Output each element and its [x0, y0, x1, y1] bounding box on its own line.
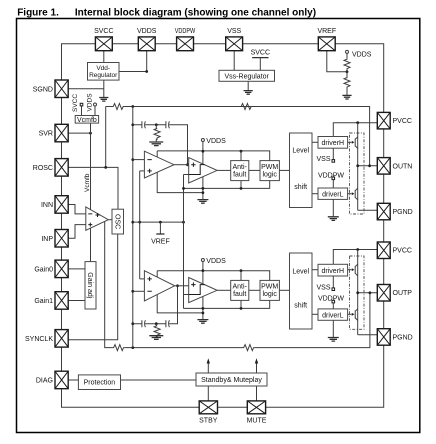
svg-text:Gain adj: Gain adj — [86, 272, 93, 299]
wire SYNCLK pin to OSC bottom — [68, 234, 118, 340]
block Anti-fault (ch1) — [231, 161, 249, 181]
svg-text:PVCC: PVCC — [393, 118, 412, 125]
op-amp U4 (integrator ch2) — [144, 271, 174, 301]
svg-text:STBY: STBY — [199, 417, 218, 424]
svg-text:fault: fault — [233, 291, 246, 298]
resistor (VREF divider upper) — [344, 58, 350, 71]
svg-text:driverH: driverH — [322, 268, 345, 275]
wire VDDS terminal down through comparator1 to ground — [202, 142, 204, 200]
wire Gain0 pin to Gain adj — [68, 268, 85, 270]
svg-text:ROSC: ROSC — [33, 165, 53, 172]
power terminal VDDPW (top, square) — [332, 177, 335, 180]
wire SVCC pin to Vdd-Regulator — [103, 51, 105, 63]
MOSFET Q1 (high side, top channel) — [348, 141, 352, 143]
junction Vdd-Regulator/VDDS — [145, 70, 148, 73]
wire INN pin to input amp inverting input — [68, 205, 86, 214]
block Vdd-Regulator — [88, 63, 120, 81]
wire comparator2 output to anti-fault2 — [217, 289, 231, 291]
ground (comparator1 section) — [197, 200, 208, 204]
svg-text:VDDS: VDDS — [87, 93, 94, 112]
junction VREF divider node — [346, 70, 349, 73]
wire Standby block to MUTE pin — [256, 386, 258, 401]
junction VREF stem — [159, 221, 162, 224]
ground (top cap node) — [149, 142, 163, 146]
resistor (top cap node to ground) — [154, 125, 160, 142]
svg-text:Vcmfb: Vcmfb — [84, 173, 91, 192]
junction bottom cap node — [155, 322, 158, 325]
svg-text:VDDS: VDDS — [206, 138, 226, 145]
MOSFET Q4 (low side, bottom channel) — [348, 313, 352, 315]
wire Vcmfb vertical (box to input amp, behind triangle) — [90, 123, 92, 229]
svg-text:SVCC: SVCC — [94, 28, 113, 35]
wire op-amp3 supply pass-through leg — [157, 271, 203, 313]
wire input amp output to OSC — [108, 219, 112, 221]
wire op-amp1 supply pass-through leg — [157, 151, 203, 193]
pin VSS (top) — [226, 37, 243, 51]
pin VDDPW (top) — [177, 37, 194, 51]
svg-text:shift: shift — [294, 302, 307, 309]
capacitor C3 (bottom left) — [142, 320, 146, 327]
wire PWM logic2 to level shift2 — [279, 289, 289, 291]
pin SVCC (top) — [95, 37, 112, 51]
block Vcmfb — [75, 116, 98, 124]
svg-text:Vdd-: Vdd- — [96, 65, 110, 72]
comparator U5 (ch2, with hysteresis) — [189, 278, 217, 303]
wire level shift2 to driverL2 — [312, 313, 318, 315]
net VREF rail — [133, 221, 184, 223]
pin INP (left) — [55, 230, 68, 248]
wire comparator2 minus input — [184, 294, 189, 296]
ground (bottom cap node) — [149, 336, 163, 340]
power terminal SVCC (square, above Vcmfb) — [81, 106, 83, 116]
pin MUTE (bottom) — [247, 401, 265, 414]
chip boundary (device border rectangle, pins straddle it) — [62, 44, 384, 408]
junction OUTP/feedback — [369, 291, 372, 294]
svg-text:SGND: SGND — [33, 86, 53, 93]
svg-text:driverL: driverL — [322, 192, 344, 199]
block driverL (ch2) — [318, 309, 348, 320]
power terminal VDDS (top channel) — [201, 139, 204, 142]
MOSFET Q3 (high side, bottom channel) — [348, 269, 352, 271]
junction feedback/inverting bus — [131, 105, 134, 108]
svg-text:INP: INP — [41, 236, 53, 243]
junction lower rail / bus — [182, 187, 185, 190]
net OUTN rail — [358, 165, 378, 167]
svg-text:OUTP: OUTP — [393, 290, 413, 297]
wire Standby block to STBY pin — [207, 386, 209, 401]
pin STBY (bottom) — [199, 401, 217, 414]
junction top cap node — [155, 123, 158, 126]
block Level shift (ch2) — [290, 253, 313, 329]
wire anti-fault2 to PWM logic2 — [249, 289, 260, 291]
junction bus/op-amp3 inverting input — [131, 290, 134, 293]
ground (Vdd-Regulator) — [99, 98, 108, 102]
junction OUTP/drain — [356, 291, 359, 294]
svg-text:VSS: VSS — [316, 284, 330, 291]
net PVCC rail (bottom channel) — [333, 250, 377, 265]
svg-text:PWM: PWM — [261, 284, 278, 291]
net VDDS rail (bottom channel) — [157, 271, 270, 281]
pin PGND (right ch2) — [377, 329, 390, 346]
junction VDDS rail / anti-fault supply — [240, 150, 243, 153]
svg-text:driverH: driverH — [322, 140, 345, 147]
pin PVCC (right ch1) — [377, 112, 390, 128]
svg-text:Figure 1.: Figure 1. — [17, 8, 59, 19]
svg-text:Anti-: Anti- — [232, 284, 247, 291]
pin ROSC (left) — [55, 159, 68, 177]
junction VDDS rail start — [202, 150, 205, 153]
svg-text:OUTN: OUTN — [393, 163, 413, 170]
net lower rail (top channel) — [184, 181, 270, 189]
junction VDDS rail2 start — [202, 269, 205, 272]
svg-text:Internal block diagram (showin: Internal block diagram (showing one chan… — [75, 8, 316, 19]
svg-text:VDDS: VDDS — [206, 258, 226, 265]
block driverL (ch1) — [318, 188, 348, 199]
wire feedback-line left leg down to ROSC net — [105, 107, 107, 168]
wire Gain1 pin to Gain adj — [68, 300, 85, 302]
net inverting bus (vertical x=132.8) — [132, 107, 134, 348]
block Vss-Regulator — [219, 70, 275, 81]
block driverH (ch2) — [318, 264, 348, 276]
resistor (VREF divider lower) — [344, 72, 350, 95]
junction ROSC/feedback leg — [104, 166, 107, 169]
junction bottom feedback/inverting bus — [131, 346, 134, 349]
wire driverL to ground (top) — [332, 199, 334, 216]
wire SGND pin to regulator ground — [68, 88, 104, 90]
svg-text:MUTE: MUTE — [247, 417, 267, 424]
wire op-amp1 output to comparator1 — [174, 164, 189, 166]
svg-text:Regulator: Regulator — [89, 72, 118, 79]
control arrow (standby to channel 2) — [256, 362, 258, 374]
block Anti-fault (ch2) — [231, 280, 249, 300]
power terminal VSS (bottom, square) — [332, 288, 335, 291]
wire VDDPW terminal to driverL (top) — [332, 180, 334, 188]
svg-text:VDDS: VDDS — [137, 28, 157, 35]
svg-text:VSS: VSS — [227, 28, 241, 35]
svg-text:SYNCLK: SYNCLK — [25, 336, 53, 343]
junction OUTN/feedback — [368, 164, 371, 167]
svg-text:VREF: VREF — [317, 28, 336, 35]
ground (comparator2 section) — [197, 320, 208, 324]
pin SGND (left) — [55, 80, 68, 98]
wire bottom integrator cap line — [133, 286, 178, 324]
block driverH (ch1) — [318, 137, 348, 149]
power terminal VDDS (circle) above divider — [346, 50, 349, 53]
wire level shift2 to driverH2 — [312, 269, 318, 271]
reference terminal VREF (inverted T) — [159, 222, 161, 234]
junction lower rail / anti-fault — [240, 187, 243, 190]
svg-text:SVCC: SVCC — [251, 50, 270, 57]
junction op-amp3 supply return — [202, 312, 205, 315]
svg-text:VDDPW: VDDPW — [175, 28, 196, 35]
svg-text:logic: logic — [262, 171, 277, 178]
ground (driverL bottom channel) — [328, 338, 339, 342]
wire common-mode leg (input amp down to bottom feedback) — [105, 221, 113, 348]
wire ROSC pin to OSC top — [68, 167, 118, 209]
block Standby and Muteplay — [196, 373, 267, 386]
wire VDDS terminal down through comparator2 to ground — [202, 262, 204, 320]
op-amp U1 (input error amp Vcmfb) — [86, 207, 109, 230]
wire anti-fault supply stub (behind box) — [240, 151, 242, 189]
comparator U3 (ch1, with hysteresis) — [189, 158, 217, 183]
wire op-amp1 inverting input — [133, 159, 145, 161]
wire comparator1 output to anti-fault — [217, 169, 231, 171]
capacitor C1 (top left) — [142, 121, 146, 128]
wire VDDPW terminal to driverL2 — [332, 303, 334, 309]
junction SVR/Vcmfb — [89, 132, 92, 135]
power terminal VDDS (circle, above Vcmfb) — [94, 106, 96, 116]
capacitor C2 (top right) — [166, 121, 170, 128]
junction cap leg / op-amp3 output — [176, 284, 179, 287]
block OSC — [112, 209, 124, 234]
junction noninv bus/VREF rail — [138, 221, 141, 224]
pin PGND (right ch1) — [377, 203, 390, 220]
svg-text:VDDPW: VDDPW — [318, 172, 344, 179]
ground (VREF divider) — [342, 95, 351, 99]
svg-text:Level: Level — [292, 268, 309, 275]
wire output stage drain line (bottom) — [357, 250, 359, 335]
junction bus/op-amp1 inverting input — [131, 158, 134, 161]
resistor (feedback R upper-right) — [240, 104, 252, 110]
net PGND rail (top channel) — [358, 209, 378, 211]
wire comparator1 minus input — [184, 174, 189, 176]
svg-text:Protection: Protection — [84, 380, 116, 387]
junction lower rail2 / anti-fault2 — [240, 307, 243, 310]
svg-text:logic: logic — [262, 291, 277, 298]
wire VREF pin to divider node — [327, 51, 347, 72]
wire driverH2 to VSS terminal — [332, 275, 334, 288]
pin Gain0 (left) — [55, 260, 68, 278]
svg-text:SVCC: SVCC — [72, 94, 79, 112]
svg-text:PGND: PGND — [393, 209, 413, 216]
junction bus/VREF rail — [131, 221, 134, 224]
svg-text:Level: Level — [292, 147, 309, 154]
svg-text:PWM: PWM — [261, 164, 278, 171]
net PGND rail (bottom channel) — [358, 334, 378, 336]
net PVCC rail (top channel) — [333, 123, 377, 137]
junction bus/top cap line — [131, 123, 134, 126]
block PWM logic (ch1) — [260, 161, 279, 181]
wire output stage drain line (top) — [357, 123, 359, 211]
pin VREF (top) — [318, 37, 335, 51]
block Level shift (ch1) — [290, 133, 313, 208]
svg-text:PVCC: PVCC — [393, 248, 412, 255]
wire VSS pin to Vss-Regulator — [233, 51, 235, 71]
wire op-amp3 inverting input — [133, 290, 145, 292]
pin OUTP (right) — [377, 285, 390, 302]
power terminal VDDPW (bottom, square) — [332, 300, 335, 303]
junction VREF rail / comparator- bus — [182, 221, 185, 224]
block Gain adj — [85, 262, 96, 309]
pin OUTN (right) — [377, 158, 390, 175]
capacitor C4 (bottom right) — [166, 320, 170, 327]
net OUTN feedback line (top long horizontal) — [106, 107, 370, 166]
output stage dashed boundary (top channel) — [350, 133, 365, 214]
wire anti-fault to PWM logic (top) — [249, 169, 260, 171]
wire DIAG pin to Protection — [68, 379, 78, 381]
net comparator reference bus (vertical x=183.5) — [183, 175, 185, 309]
wire op-amp3 output to comparator2 — [175, 285, 189, 287]
wire level shift to driverH (top) — [312, 141, 318, 143]
svg-text:VREF: VREF — [151, 239, 170, 246]
wire op-amp1 non-inverting input — [140, 170, 145, 172]
junction OUTN/drain — [356, 164, 359, 167]
wire top integrator cap line — [133, 125, 188, 165]
svg-text:SVR: SVR — [39, 131, 53, 138]
pin DIAG (left) — [55, 371, 68, 389]
control arrow (standby to channel 1) — [207, 362, 209, 374]
svg-text:VSS: VSS — [316, 156, 330, 163]
net OUTP rail — [358, 292, 378, 294]
svg-text:VDDPW: VDDPW — [318, 295, 344, 302]
svg-text:Vss-Regulator: Vss-Regulator — [225, 73, 270, 80]
junction cap leg / op-amp1 output — [186, 163, 189, 166]
svg-text:DIAG: DIAG — [36, 378, 53, 385]
wire anti-fault2 supply stub — [240, 271, 242, 309]
svg-text:driverL: driverL — [322, 313, 344, 320]
resistor (feedback R upper-left) — [112, 104, 124, 110]
svg-text:fault: fault — [233, 171, 246, 178]
net VDDS rail (top channel) — [157, 151, 270, 161]
pin VDDS (top) — [138, 37, 155, 51]
svg-text:Vcmfb: Vcmfb — [77, 117, 97, 124]
block Protection — [78, 375, 120, 390]
junction lower rail2 / gnd stem — [202, 307, 205, 310]
junction PVCC rail / output stage — [356, 121, 359, 124]
svg-text:shift: shift — [294, 184, 307, 191]
pin Gain1 (left) — [55, 292, 68, 310]
block PWM logic (ch2) — [260, 280, 279, 300]
svg-text:OSC: OSC — [114, 214, 121, 229]
resistor (bottom cap node to ground) — [154, 324, 160, 337]
wire INP pin to input amp non-inverting input — [68, 225, 86, 239]
op-amp U2 (integrator ch1) — [144, 151, 174, 178]
MOSFET Q2 (low side, top channel) — [348, 193, 352, 195]
net OUTP feedback line (bottom long horizontal) — [125, 293, 370, 348]
wire SVR pin to Vcmfb line — [68, 132, 90, 134]
resistor (feedback R lower-right) — [243, 345, 255, 351]
wire PWM logic to level shift (top) — [279, 169, 289, 171]
pin SVR (left) — [55, 124, 68, 142]
wire Protection to Standby block — [121, 379, 197, 381]
svg-text:Standby& Muteplay: Standby& Muteplay — [201, 377, 262, 384]
pin SYNCLK (left) — [55, 330, 68, 348]
power terminal SVCC (bar) for Vss-Regulator — [252, 57, 268, 59]
power terminal VSS (top, square) — [332, 160, 335, 163]
wire Vss-Regulator ground stem — [247, 81, 249, 90]
wire Gain adj to input amp — [90, 229, 92, 262]
resistor (feedback R lower-left) — [112, 345, 124, 351]
svg-text:VDDS: VDDS — [352, 52, 372, 59]
svg-text:Gain0: Gain0 — [34, 266, 53, 273]
wire driverH to VSS terminal (top) — [332, 148, 334, 159]
power terminal VDDS (bottom channel) — [201, 259, 204, 262]
svg-text:Anti-: Anti- — [232, 164, 247, 171]
net lower rail (bottom channel) — [184, 300, 270, 308]
wire Vdd-Regulator ground stem — [103, 80, 105, 97]
ground (driverL top channel) — [328, 217, 339, 221]
svg-text:Gain1: Gain1 — [34, 298, 53, 305]
junction PVCC rail2 / output stage — [356, 248, 359, 251]
output stage dashed boundary (bottom channel) — [350, 256, 365, 329]
pin INN (left) — [55, 196, 68, 214]
net non-inverting bus (vertical x=139.7) — [139, 171, 141, 279]
wire driverL2 to ground — [332, 320, 334, 338]
svg-text:INN: INN — [41, 202, 53, 209]
wire op-amp3 non-inverting input — [140, 278, 145, 280]
ground (Vss-Regulator) — [244, 91, 253, 95]
svg-text:PGND: PGND — [393, 334, 413, 341]
wire Vdd-Regulator output to VDDS pin — [119, 51, 147, 72]
junction op-amp1 supply return — [202, 191, 205, 194]
junction bus/bottom cap line — [131, 322, 134, 325]
wire level shift to driverL (top) — [312, 193, 318, 195]
pin PVCC (right ch2) — [377, 242, 390, 259]
junction VDDS rail2 / anti-fault2 — [240, 269, 243, 272]
junction lower rail / gnd stem — [202, 187, 205, 190]
